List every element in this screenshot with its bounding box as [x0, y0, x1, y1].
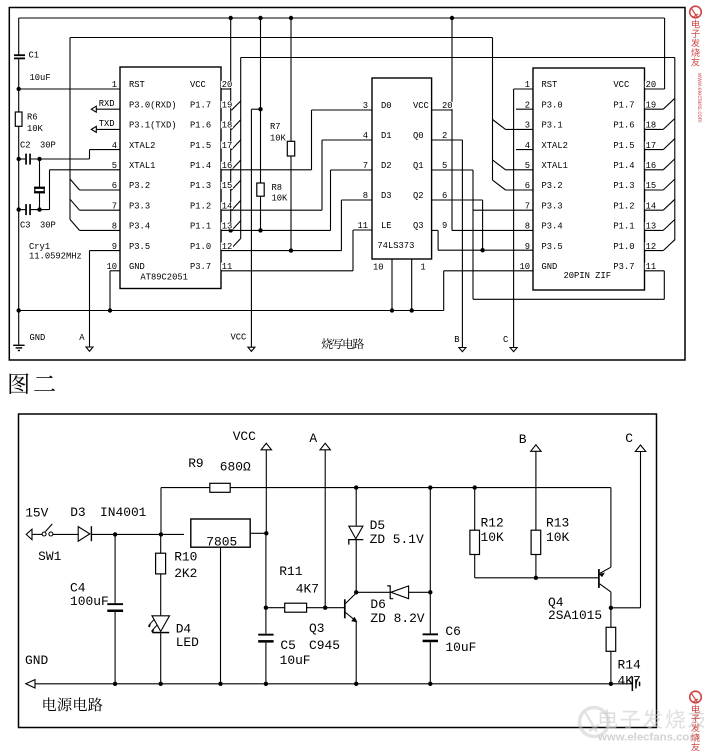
svg-text:P1.4: P1.4: [190, 161, 211, 171]
svg-text:ZD 8.2V: ZD 8.2V: [370, 611, 424, 626]
svg-text:P1.5: P1.5: [613, 141, 634, 151]
svg-text:GND: GND: [30, 333, 46, 343]
svg-text:3: 3: [363, 101, 368, 111]
svg-text:4: 4: [112, 141, 117, 151]
svg-text:2K2: 2K2: [174, 566, 197, 581]
svg-text:11: 11: [222, 262, 233, 272]
svg-text:P1.1: P1.1: [613, 222, 634, 232]
svg-text:GND: GND: [542, 262, 558, 272]
svg-text:14: 14: [222, 201, 233, 211]
svg-text:20: 20: [222, 80, 233, 90]
svg-text:D5: D5: [370, 518, 385, 533]
svg-text:10K: 10K: [546, 530, 569, 545]
svg-text:VCC: VCC: [413, 101, 429, 111]
svg-text:5: 5: [112, 161, 117, 171]
svg-text:Q2: Q2: [413, 191, 424, 201]
svg-text:10uF: 10uF: [445, 640, 476, 655]
svg-text:B: B: [454, 335, 459, 345]
svg-text:19: 19: [646, 100, 657, 110]
svg-text:RST: RST: [129, 80, 145, 90]
svg-text:9: 9: [442, 221, 447, 231]
svg-text:D0: D0: [381, 101, 392, 111]
svg-text:19: 19: [222, 100, 233, 110]
svg-text:13: 13: [222, 222, 233, 232]
svg-text:P1.0: P1.0: [613, 242, 634, 252]
svg-text:R14: R14: [618, 658, 641, 673]
svg-text:Q1: Q1: [413, 161, 424, 171]
svg-text:11: 11: [646, 262, 657, 272]
svg-text:Cry1: Cry1: [29, 242, 50, 252]
svg-text:2SA1015: 2SA1015: [548, 608, 602, 623]
svg-text:XTAL2: XTAL2: [542, 141, 568, 151]
svg-text:7805: 7805: [206, 534, 237, 549]
svg-text:D6: D6: [370, 597, 385, 612]
svg-text:1: 1: [112, 80, 117, 90]
svg-text:www.elecfans.com: www.elecfans.com: [597, 732, 700, 744]
svg-text:20: 20: [646, 80, 657, 90]
svg-text:VCC: VCC: [233, 429, 256, 444]
svg-text:A: A: [79, 333, 85, 343]
svg-text:A: A: [309, 431, 317, 446]
svg-text:8: 8: [363, 191, 368, 201]
svg-text:P1.7: P1.7: [613, 100, 634, 110]
svg-text:15: 15: [646, 181, 657, 191]
svg-text:7: 7: [112, 201, 117, 211]
svg-text:10: 10: [519, 262, 530, 272]
svg-text:R8: R8: [272, 183, 283, 193]
svg-text:17: 17: [646, 141, 657, 151]
svg-text:P1.0: P1.0: [190, 242, 211, 252]
svg-text:15: 15: [222, 181, 233, 191]
svg-text:AT89C2051: AT89C2051: [140, 272, 188, 282]
svg-text:RXD: RXD: [99, 99, 115, 109]
svg-text:15V: 15V: [25, 506, 48, 521]
svg-text:P1.5: P1.5: [190, 141, 211, 151]
svg-text:4: 4: [363, 131, 368, 141]
svg-text:SW1: SW1: [38, 549, 61, 564]
svg-text:P3.2: P3.2: [542, 181, 563, 191]
svg-text:P3.7: P3.7: [190, 262, 211, 272]
svg-text:P3.2: P3.2: [129, 181, 150, 191]
svg-text:7: 7: [363, 161, 368, 171]
svg-text:P1.4: P1.4: [613, 161, 634, 171]
svg-text:6: 6: [112, 181, 117, 191]
svg-text:P1.6: P1.6: [190, 121, 211, 131]
svg-text:P1.1: P1.1: [190, 222, 211, 232]
svg-text:P1.3: P1.3: [190, 181, 211, 191]
svg-text:10uF: 10uF: [280, 653, 311, 668]
svg-text:TXD: TXD: [99, 119, 115, 129]
svg-text:1: 1: [525, 80, 530, 90]
svg-text:R10: R10: [174, 550, 197, 565]
svg-text:9: 9: [525, 242, 530, 252]
svg-text:D3: D3: [70, 505, 85, 520]
svg-text:B: B: [519, 432, 527, 447]
svg-text:C: C: [503, 335, 508, 345]
svg-text:C5: C5: [280, 638, 295, 653]
svg-text:VCC: VCC: [231, 333, 247, 343]
svg-text:5: 5: [442, 161, 447, 171]
svg-text:6: 6: [442, 191, 447, 201]
svg-text:C945: C945: [309, 638, 340, 653]
svg-text:Q0: Q0: [413, 131, 424, 141]
svg-text:P1.2: P1.2: [190, 201, 211, 211]
svg-text:P3.4: P3.4: [129, 222, 150, 232]
svg-text:100uF: 100uF: [70, 594, 109, 609]
svg-text:2: 2: [442, 131, 447, 141]
svg-text:R12: R12: [481, 515, 504, 530]
svg-text:D2: D2: [381, 161, 392, 171]
svg-text:VCC: VCC: [190, 80, 206, 90]
svg-text:10uF: 10uF: [30, 73, 51, 83]
svg-text:9: 9: [112, 242, 117, 252]
svg-text:LE: LE: [381, 221, 392, 231]
svg-text:6: 6: [525, 181, 530, 191]
svg-text:4K7: 4K7: [296, 581, 319, 596]
svg-text:P1.6: P1.6: [613, 121, 634, 131]
svg-text:GND: GND: [129, 262, 145, 272]
svg-text:Q3: Q3: [413, 221, 424, 231]
svg-text:P1.2: P1.2: [613, 201, 634, 211]
svg-text:D3: D3: [381, 191, 392, 201]
svg-text:4: 4: [525, 141, 530, 151]
svg-text:P3.4: P3.4: [542, 222, 563, 232]
svg-text:C: C: [625, 431, 633, 446]
svg-text:XTAL1: XTAL1: [129, 161, 155, 171]
svg-text:P3.0: P3.0: [542, 100, 563, 110]
svg-text:XTAL1: XTAL1: [542, 161, 568, 171]
svg-text:18: 18: [646, 121, 657, 131]
svg-text:8: 8: [525, 222, 530, 232]
svg-text:16: 16: [222, 161, 233, 171]
svg-text:R9: R9: [188, 456, 203, 471]
svg-text:12: 12: [646, 242, 657, 252]
svg-text:VCC: VCC: [613, 80, 629, 90]
svg-text:10K: 10K: [272, 194, 289, 204]
svg-text:14: 14: [646, 201, 657, 211]
svg-text:P1.3: P1.3: [613, 181, 634, 191]
svg-text:www.elecfans.com: www.elecfans.com: [696, 72, 702, 123]
svg-text:Q3: Q3: [309, 621, 324, 636]
svg-text:C1: C1: [29, 51, 40, 61]
svg-text:10: 10: [106, 262, 117, 272]
svg-text:11: 11: [357, 221, 368, 231]
svg-text:P3.3: P3.3: [542, 201, 563, 211]
svg-text:13: 13: [646, 222, 657, 232]
svg-text:12: 12: [222, 242, 233, 252]
svg-text:4K7: 4K7: [618, 673, 641, 688]
svg-text:P3.5: P3.5: [129, 242, 150, 252]
svg-text:10: 10: [373, 262, 384, 272]
svg-text:P3.5: P3.5: [542, 242, 563, 252]
svg-text:C3: C3: [20, 220, 31, 230]
svg-text:1: 1: [420, 262, 425, 272]
svg-text:11.0592MHz: 11.0592MHz: [29, 252, 82, 262]
svg-text:30P: 30P: [40, 141, 56, 151]
svg-text:R13: R13: [546, 515, 569, 530]
svg-text:10K: 10K: [270, 134, 287, 144]
svg-text:C2: C2: [20, 141, 31, 151]
svg-text:R7: R7: [270, 122, 281, 132]
svg-text:7: 7: [525, 201, 530, 211]
svg-text:8: 8: [112, 222, 117, 232]
svg-text:C6: C6: [445, 624, 460, 639]
svg-text:P1.7: P1.7: [190, 100, 211, 110]
svg-text:74LS373: 74LS373: [377, 241, 414, 251]
svg-text:10K: 10K: [481, 530, 504, 545]
svg-text:RST: RST: [542, 80, 558, 90]
svg-text:R11: R11: [279, 564, 302, 579]
svg-text:20: 20: [442, 101, 453, 111]
svg-text:D1: D1: [381, 131, 392, 141]
svg-text:2: 2: [525, 100, 530, 110]
svg-text:ZD 5.1V: ZD 5.1V: [370, 532, 424, 547]
svg-text:GND: GND: [25, 653, 48, 668]
svg-text:5: 5: [525, 161, 530, 171]
svg-text:P3.0(RXD): P3.0(RXD): [129, 100, 177, 110]
svg-text:17: 17: [222, 141, 233, 151]
svg-text:R6: R6: [27, 113, 38, 123]
svg-text:IN4001: IN4001: [100, 505, 147, 520]
svg-text:P3.1: P3.1: [542, 121, 563, 131]
svg-text:18: 18: [222, 121, 233, 131]
svg-text:30P: 30P: [40, 220, 56, 230]
svg-text:16: 16: [646, 161, 657, 171]
svg-text:20PIN ZIF: 20PIN ZIF: [564, 271, 612, 281]
svg-text:10K: 10K: [27, 124, 44, 134]
svg-text:3: 3: [525, 121, 530, 131]
svg-text:680Ω: 680Ω: [220, 460, 251, 475]
svg-text:XTAL2: XTAL2: [129, 141, 155, 151]
svg-text:P3.3: P3.3: [129, 201, 150, 211]
svg-text:LED: LED: [176, 635, 199, 650]
svg-text:P3.7: P3.7: [613, 262, 634, 272]
svg-text:P3.1(TXD): P3.1(TXD): [129, 121, 177, 131]
